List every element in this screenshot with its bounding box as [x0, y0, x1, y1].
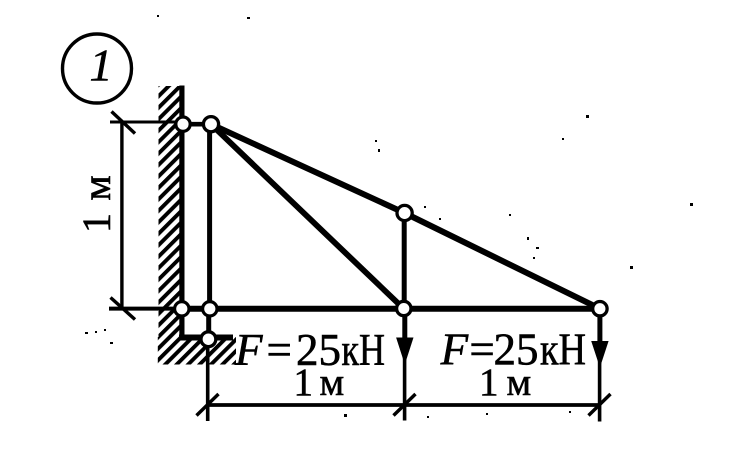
svg-text:м: м: [507, 361, 532, 404]
svg-text:F: F: [234, 325, 263, 375]
svg-text:=: =: [267, 325, 292, 375]
svg-text:кН: кН: [342, 325, 386, 375]
svg-text:F: F: [440, 325, 469, 375]
svg-text:1: 1: [90, 40, 113, 91]
svg-text:1 м: 1 м: [74, 174, 119, 233]
svg-text:1: 1: [294, 361, 314, 404]
svg-text:1: 1: [479, 361, 499, 404]
svg-text:кН: кН: [540, 325, 586, 375]
svg-text:м: м: [320, 361, 345, 404]
